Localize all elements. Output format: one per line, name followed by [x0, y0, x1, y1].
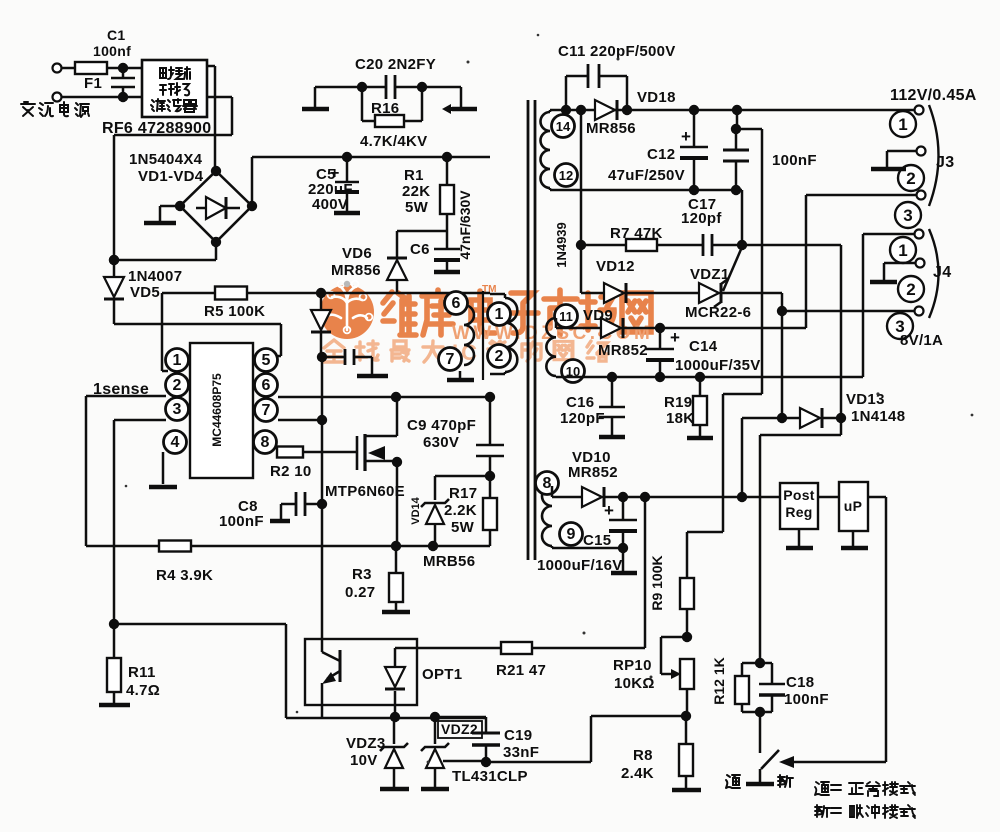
svg-text:1N4148: 1N4148: [851, 408, 905, 425]
svg-text:1N4939: 1N4939: [554, 222, 569, 268]
chassis ground C20 right: [442, 104, 477, 114]
transformer winding 11-10: [546, 305, 584, 383]
diode VD9 MR852: [556, 307, 806, 359]
svg-text:3: 3: [173, 401, 182, 418]
resistor R12: [711, 657, 765, 712]
svg-text:2: 2: [906, 280, 915, 299]
ground uP: [841, 531, 868, 548]
wire opto cathode node: [322, 712, 486, 722]
svg-text:4.7Ω: 4.7Ω: [126, 682, 160, 699]
svg-text:uP: uP: [844, 498, 863, 514]
diode VD14: [410, 476, 490, 546]
wire Vcc rail down: [317, 357, 327, 639]
wire feedback tap: [687, 129, 762, 578]
resistor R1: [402, 152, 454, 248]
diode VD12: [581, 258, 699, 303]
capacitor C1: [93, 27, 135, 102]
svg-text:C16: C16: [566, 394, 594, 411]
capacitor C19: [435, 717, 539, 762]
transistor Q1 MTP6N60E: [325, 397, 405, 546]
svg-text:8V/1A: 8V/1A: [900, 332, 943, 349]
svg-text:5: 5: [262, 352, 271, 369]
svg-text:C20 2N2FY: C20 2N2FY: [355, 56, 436, 73]
svg-text:C19: C19: [504, 727, 532, 744]
svg-text:630V: 630V: [423, 434, 459, 451]
svg-text:MR856: MR856: [586, 120, 636, 137]
svg-text:11: 11: [559, 309, 573, 324]
ground J4-2: [870, 263, 915, 282]
svg-text:C15: C15: [583, 532, 611, 549]
wire drain riser: [485, 392, 495, 402]
wire AC N: [61, 96, 142, 99]
svg-text:8: 8: [543, 475, 552, 492]
terminal AC N: [53, 93, 62, 102]
capacitor C5: [308, 152, 360, 213]
switch mode: [746, 712, 779, 784]
svg-text:3: 3: [903, 206, 912, 225]
svg-text:VD14: VD14: [410, 496, 422, 524]
module Post Reg: [780, 483, 818, 529]
svg-text:+: +: [681, 127, 691, 146]
wire RF box upper out: [207, 66, 215, 171]
svg-text:2: 2: [495, 348, 504, 365]
svg-text:+: +: [670, 328, 680, 347]
svg-text:VD6: VD6: [342, 245, 372, 262]
capacitor C15: [537, 497, 637, 574]
label mode legend: [815, 782, 915, 818]
ground bridge left: [144, 206, 180, 223]
potentiometer RP10: [613, 637, 694, 716]
svg-text:120pF: 120pF: [560, 410, 605, 427]
svg-text:VDZ3: VDZ3: [346, 735, 386, 752]
fuse F1: [61, 62, 142, 92]
svg-text:100nF: 100nF: [784, 691, 829, 708]
svg-text:8: 8: [261, 434, 270, 451]
watermark logo: [320, 281, 374, 339]
svg-text:5W: 5W: [451, 519, 475, 536]
resistor R3: [345, 546, 410, 612]
transformer core: [528, 100, 535, 560]
svg-text:Reg: Reg: [785, 504, 812, 520]
connector J4: [887, 229, 951, 339]
diode VD10 MR852: [552, 449, 780, 507]
svg-text:C18: C18: [786, 674, 814, 691]
resistor R19: [664, 377, 713, 438]
svg-text:VD18: VD18: [637, 89, 676, 106]
svg-text:R4 3.9K: R4 3.9K: [156, 567, 213, 584]
svg-text:10KΩ: 10KΩ: [614, 675, 655, 692]
resistor R17: [444, 471, 497, 546]
ground Post Reg: [786, 529, 813, 548]
watermark title text: [383, 284, 651, 335]
svg-text:400V: 400V: [312, 196, 348, 213]
svg-text:9: 9: [567, 526, 576, 543]
IC U1 MC44608P75: [164, 343, 278, 478]
svg-text:100nf: 100nf: [93, 43, 131, 59]
wire VD13 anode down: [741, 418, 744, 497]
svg-text:C6: C6: [410, 241, 430, 258]
resistor R11: [99, 624, 160, 705]
RF interference filter module RF6: [102, 60, 211, 137]
shunt reg TL431 VDZ2: [421, 717, 528, 789]
svg-text:R7 47K: R7 47K: [610, 225, 663, 242]
svg-text:VD12: VD12: [596, 258, 635, 275]
wire bridge bottom: [109, 242, 216, 265]
wire Isense: [86, 396, 166, 546]
svg-text:VD5: VD5: [130, 284, 160, 301]
svg-text:100nF: 100nF: [219, 513, 264, 530]
wire RF box lower out: [114, 97, 232, 260]
wire R1 to VD6: [397, 231, 447, 257]
wire R7 node: [554, 110, 586, 293]
svg-text:+: +: [604, 501, 614, 520]
svg-text:MCR22-6: MCR22-6: [685, 304, 751, 321]
svg-text:R9 100K: R9 100K: [649, 555, 665, 610]
module uP: [818, 482, 868, 531]
watermark slogan: [324, 340, 608, 365]
wire LED anode: [395, 647, 501, 650]
resistor R16: [360, 87, 427, 150]
wire 12V return: [550, 185, 742, 245]
svg-text:4.7K/4KV: 4.7K/4KV: [360, 133, 427, 150]
svg-text:MTP6N60E: MTP6N60E: [325, 483, 405, 500]
capacitor C14: [646, 323, 761, 377]
wire J3-3 riser: [806, 195, 916, 328]
diode VD7: [311, 293, 331, 357]
capacitor C11: [558, 43, 676, 110]
wire TL431 ref: [443, 757, 491, 767]
diode VD13 1N4148: [742, 391, 905, 428]
svg-text:TL431CLP: TL431CLP: [452, 768, 528, 785]
svg-text:R11: R11: [128, 664, 156, 681]
svg-text:R8: R8: [633, 747, 653, 764]
capacitor C18: [755, 663, 829, 717]
svg-text:1000uF/35V: 1000uF/35V: [675, 357, 761, 374]
transformer winding 8-9: [536, 472, 583, 549]
svg-text:1: 1: [898, 115, 907, 134]
svg-text:2: 2: [906, 169, 915, 188]
svg-text:1: 1: [898, 241, 907, 260]
svg-text:112V/0.45A: 112V/0.45A: [890, 87, 977, 104]
svg-text:MR852: MR852: [598, 342, 648, 359]
svg-text:C12: C12: [647, 146, 675, 163]
capacitor C12: [608, 110, 708, 190]
svg-text:R17: R17: [449, 485, 477, 502]
resistor R2: [270, 447, 357, 481]
svg-text:VDZ2: VDZ2: [441, 721, 478, 737]
svg-text:C14: C14: [689, 338, 718, 355]
connector J3: [890, 105, 954, 228]
wire pin7 right: [278, 419, 322, 422]
svg-text:2.2K: 2.2K: [444, 502, 477, 519]
resistor R7: [581, 225, 702, 251]
svg-text:OPT1: OPT1: [422, 666, 462, 683]
transformer winding 1-2: [488, 294, 518, 374]
transformer winding 14-12: [541, 110, 578, 190]
svg-text:4: 4: [171, 434, 180, 451]
svg-text:C1: C1: [107, 27, 126, 43]
capacitor C17: [681, 196, 747, 256]
zener VDZ3: [346, 717, 409, 789]
svg-text:VDZ1: VDZ1: [690, 266, 730, 283]
svg-text:RP10: RP10: [613, 657, 652, 674]
svg-text:R3: R3: [352, 566, 372, 583]
svg-text:VD9: VD9: [583, 307, 613, 324]
svg-text:33nF: 33nF: [503, 744, 539, 761]
svg-text:C9 470pF: C9 470pF: [407, 417, 476, 434]
svg-text:2: 2: [173, 377, 182, 394]
wire C20 right: [422, 87, 461, 107]
svg-text:1N4007: 1N4007: [128, 268, 182, 285]
wire pin3 left: [114, 420, 166, 624]
svg-text:MR852: MR852: [568, 464, 618, 481]
svg-text:47uF/250V: 47uF/250V: [608, 167, 685, 184]
resistor R21: [496, 497, 645, 679]
ground IC pin4: [149, 452, 177, 487]
wire C17 to VD13: [742, 245, 841, 418]
svg-text:R12 1K: R12 1K: [711, 657, 727, 704]
svg-text:1: 1: [495, 306, 504, 323]
label 112V: [890, 87, 977, 104]
label 8V: [900, 332, 943, 349]
svg-text:7: 7: [262, 402, 271, 419]
diode VD5 1N4007: [104, 255, 182, 324]
svg-text:Post: Post: [783, 487, 815, 503]
resistor R4: [86, 541, 396, 585]
ground C20 left: [302, 87, 329, 109]
wire snubber node: [247, 288, 490, 298]
label switch off: [778, 775, 793, 787]
wire secondary common: [556, 234, 914, 382]
svg-text:R21 47: R21 47: [496, 662, 546, 679]
diode VD18 MR856: [586, 89, 676, 137]
svg-text:22K: 22K: [402, 183, 430, 200]
capacitor C8: [219, 492, 322, 530]
svg-text:100nF: 100nF: [772, 152, 817, 169]
thyristor VDZ1 MCR22-6: [685, 247, 751, 321]
watermark url: [452, 323, 653, 344]
capacitor C13 100nF: [723, 110, 817, 190]
capacitor C6: [410, 190, 473, 272]
wire 112V rail: [550, 105, 914, 115]
wire uP to switch: [792, 497, 886, 762]
svg-text:MC44608P75: MC44608P75: [210, 373, 224, 447]
label MRB56: [423, 553, 475, 570]
wire pin9 line: [552, 547, 623, 550]
svg-text:MRB56: MRB56: [423, 553, 475, 570]
wire source node: [391, 541, 490, 551]
svg-text:R1: R1: [404, 167, 424, 184]
svg-text:VD1-VD4: VD1-VD4: [138, 168, 204, 185]
svg-text:J3: J3: [936, 154, 954, 171]
svg-text:J4: J4: [933, 264, 951, 281]
wire fb to tl431: [486, 716, 686, 762]
wire VD13 to mode: [760, 418, 841, 663]
label switch on: [726, 775, 740, 788]
svg-text:14: 14: [556, 119, 571, 134]
diode VD6 MR856: [331, 245, 407, 294]
svg-text:1N5404X4: 1N5404X4: [129, 151, 203, 168]
wire C20 left: [315, 82, 367, 92]
bridge rectifier VD1-VD4: [129, 151, 257, 247]
svg-text:F1: F1: [84, 75, 102, 92]
svg-text:1: 1: [173, 352, 182, 369]
svg-text:7: 7: [446, 351, 455, 368]
svg-text:R2 10: R2 10: [270, 463, 312, 480]
svg-text:R5 100K: R5 100K: [204, 303, 265, 320]
resistor R5: [162, 287, 265, 372]
capacitor C9: [407, 397, 504, 476]
optocoupler OPT1: [305, 639, 462, 718]
svg-text:18K: 18K: [666, 410, 694, 427]
svg-text:120pf: 120pf: [681, 210, 722, 227]
svg-text:MR856: MR856: [331, 262, 381, 279]
label Isense: [93, 381, 149, 398]
svg-text:10V: 10V: [350, 752, 378, 769]
specks: [125, 34, 974, 764]
resistor R9: [649, 555, 694, 642]
svg-text:5W: 5W: [405, 199, 429, 216]
capacitor C7: [317, 349, 388, 376]
terminal AC L: [53, 64, 62, 73]
wire VD5 to pin5: [114, 324, 281, 356]
label AC source: [21, 102, 89, 117]
svg-text:C11 220pF/500V: C11 220pF/500V: [558, 43, 676, 60]
transformer aux core line: [482, 291, 484, 380]
svg-text:2.4K: 2.4K: [621, 765, 654, 782]
svg-text:12: 12: [559, 168, 573, 183]
capacitor C16: [560, 377, 625, 437]
wire HV rail: [252, 156, 490, 159]
svg-text:0.27: 0.27: [345, 584, 375, 601]
svg-text:R16: R16: [371, 100, 399, 117]
svg-text:47nF/630V: 47nF/630V: [457, 190, 473, 260]
svg-text:6: 6: [262, 377, 271, 394]
wire R11 node: [109, 619, 322, 718]
wire 8V line: [721, 293, 914, 418]
resistor R8: [621, 711, 701, 790]
svg-text:6: 6: [452, 295, 461, 312]
svg-text:R19: R19: [664, 394, 692, 411]
ground J3-2: [871, 151, 916, 169]
wire pin6 drain line: [278, 392, 490, 402]
arrow mode select: [779, 756, 794, 768]
svg-text:1000uF/16V: 1000uF/16V: [537, 557, 623, 574]
transformer winding 6-7: [439, 292, 475, 381]
capacitor C20: [355, 56, 436, 99]
wire bridge to rail: [251, 157, 254, 206]
